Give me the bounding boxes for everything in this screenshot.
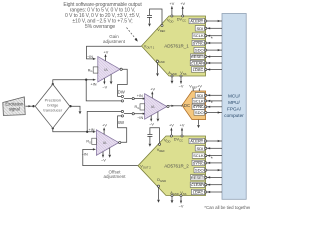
svg-text:transducer: transducer bbox=[43, 107, 63, 112]
svg-text:*: * bbox=[211, 156, 213, 162]
svg-text:FPGA/: FPGA/ bbox=[227, 107, 242, 112]
svg-text:signal: signal bbox=[9, 107, 20, 112]
svg-text:AD5761R_2: AD5761R_2 bbox=[164, 163, 189, 168]
svg-text:+V: +V bbox=[102, 124, 107, 128]
svg-text:5% overrange: 5% overrange bbox=[85, 24, 116, 30]
svg-text:SDI: SDI bbox=[197, 93, 204, 98]
svg-text:*: * bbox=[211, 101, 213, 107]
svg-text:−IN: −IN bbox=[87, 55, 93, 59]
svg-text:SDO: SDO bbox=[195, 48, 204, 53]
svg-text:SDO: SDO bbox=[195, 110, 204, 115]
svg-text:+V: +V bbox=[169, 124, 174, 128]
svg-text:−V: −V bbox=[179, 204, 184, 208]
svg-text:ADC: ADC bbox=[181, 103, 190, 108]
svg-text:+IN: +IN bbox=[88, 128, 94, 132]
svg-text:IA: IA bbox=[104, 67, 108, 72]
svg-text:SCLK: SCLK bbox=[193, 33, 204, 38]
svg-text:adjustment: adjustment bbox=[103, 174, 126, 179]
svg-text:+V: +V bbox=[180, 2, 185, 6]
svg-text:MPU/: MPU/ bbox=[228, 100, 240, 105]
svg-text:−V: −V bbox=[102, 85, 107, 89]
svg-text:+V: +V bbox=[104, 50, 109, 54]
svg-text:+V: +V bbox=[170, 2, 175, 6]
svg-text:AD5761R_1: AD5761R_1 bbox=[164, 44, 189, 49]
svg-text:SDO: SDO bbox=[195, 168, 204, 173]
svg-text:SW: SW bbox=[117, 120, 125, 125]
svg-text:DW: DW bbox=[118, 89, 126, 94]
svg-text:*Can all be tied together: *Can all be tied together bbox=[204, 205, 250, 210]
svg-text:+V: +V bbox=[150, 88, 155, 92]
svg-text:*: * bbox=[211, 37, 213, 43]
svg-text:IA: IA bbox=[103, 140, 107, 145]
svg-text:adjustment: adjustment bbox=[103, 39, 126, 44]
svg-text:−IN: −IN bbox=[82, 153, 88, 157]
svg-text:SCLK: SCLK bbox=[193, 98, 204, 103]
svg-text:−V: −V bbox=[101, 159, 106, 163]
svg-text:SDI: SDI bbox=[197, 26, 204, 31]
svg-text:−V: −V bbox=[149, 123, 154, 127]
svg-text:SDI: SDI bbox=[197, 146, 204, 151]
svg-text:+V: +V bbox=[197, 85, 202, 89]
svg-text:SCLK: SCLK bbox=[193, 153, 204, 158]
svg-text:−IN: −IN bbox=[137, 116, 143, 120]
svg-text:−V: −V bbox=[179, 85, 184, 89]
svg-text:IA: IA bbox=[151, 104, 155, 109]
svg-text:computer: computer bbox=[224, 113, 244, 118]
svg-text:+IN: +IN bbox=[90, 83, 96, 87]
svg-text:+IN: +IN bbox=[137, 94, 143, 98]
svg-text:MCU/: MCU/ bbox=[228, 94, 241, 99]
svg-text:+V: +V bbox=[180, 124, 185, 128]
